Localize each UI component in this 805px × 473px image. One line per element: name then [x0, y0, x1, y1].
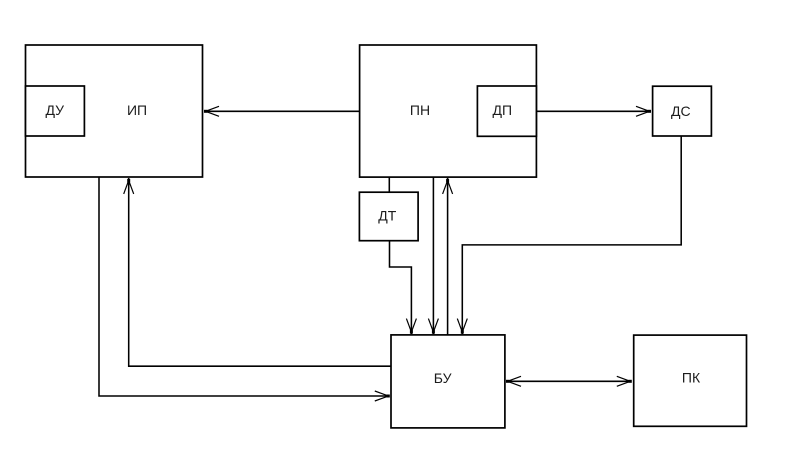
svg-text:ПК: ПК: [682, 370, 701, 386]
svg-text:ДП: ДП: [493, 102, 513, 118]
svg-text:БУ: БУ: [434, 370, 452, 386]
svg-text:ДУ: ДУ: [46, 102, 65, 118]
svg-text:ИП: ИП: [127, 102, 147, 118]
svg-text:ДТ: ДТ: [378, 208, 396, 224]
svg-text:ПН: ПН: [410, 102, 430, 118]
svg-text:ДС: ДС: [671, 103, 691, 119]
